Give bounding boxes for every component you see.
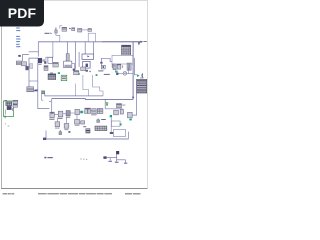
svg-text:PDF: PDF <box>8 5 37 21</box>
small valve above bar <box>59 130 62 134</box>
mini grid table M1 <box>117 104 122 108</box>
pipe bar corner up right <box>127 132 129 139</box>
wire left corner y=54.5 <box>23 55 29 62</box>
grid table G5 <box>95 126 107 130</box>
grey dots row <box>80 158 87 160</box>
block B1 top <box>78 28 82 32</box>
second table right of green box <box>13 104 18 107</box>
marks inside green box <box>12 108 14 111</box>
page border top <box>43 0 148 2</box>
tail vertical <box>116 154 118 161</box>
marks left of staircase <box>100 62 102 64</box>
feed stream label <box>45 33 50 34</box>
navy block inside green box <box>7 106 11 109</box>
teal mark on N1 <box>120 124 122 126</box>
cluster block c3b <box>81 121 85 124</box>
right row striped table RB <box>117 64 121 69</box>
valve V1 <box>55 27 57 35</box>
grey dots below green box <box>5 123 9 126</box>
tail foot marks <box>115 162 119 163</box>
wire L jog above tables <box>60 26 62 29</box>
page border right <box>146 0 149 189</box>
wire U2 drop 1 <box>83 75 89 96</box>
wire drop 3 <box>75 84 77 96</box>
wire from box to teal node <box>72 63 75 69</box>
cluster block c3 <box>75 120 80 124</box>
arrow blob left of bar <box>43 138 46 140</box>
cluster sub wires <box>57 115 77 124</box>
cluster wires <box>54 111 92 115</box>
label under S1 <box>98 70 103 71</box>
green bottom arrow <box>4 116 6 118</box>
wire B1 to B2 <box>82 29 88 31</box>
navy text bottom-left <box>44 157 52 159</box>
label above G4 <box>140 77 143 80</box>
label under b1 <box>49 119 54 120</box>
label right of M1 <box>122 104 125 107</box>
small valve icon bottom <box>97 119 100 123</box>
striped table left-edge <box>16 61 21 65</box>
wire long main line (right darker part) <box>102 41 142 43</box>
block M2 <box>128 112 133 117</box>
wire riser x=85.2 <box>84 42 86 54</box>
wire feed drop to main line <box>56 35 60 42</box>
dark node block left of pump <box>116 73 118 75</box>
label under L2 <box>38 63 41 66</box>
marks below staircase <box>44 61 46 64</box>
dark table lower <box>44 66 48 71</box>
label under b2 <box>58 118 63 119</box>
wire line A y=95.9 <box>45 94 103 96</box>
tiny marks above G2 <box>50 72 53 75</box>
label right of L2 <box>42 59 45 62</box>
wire vertical x=133.1 long <box>132 42 134 100</box>
blue stream text stack <box>16 28 20 48</box>
table TM <box>53 63 58 68</box>
block S1 <box>102 65 106 69</box>
table icon T2 left <box>27 87 34 92</box>
wire long vertical x=79.1 <box>78 52 80 67</box>
box U2 vessel <box>83 61 90 68</box>
footer text right <box>125 193 141 195</box>
page background <box>0 0 149 198</box>
dark dash D1 <box>34 90 37 91</box>
bottom-left wire drop <box>45 131 47 139</box>
down arrow branch on main line <box>138 42 140 45</box>
arrowhead end of main line <box>141 41 143 43</box>
wire drop x=105.2 <box>104 99 106 108</box>
feed arrowhead <box>51 33 53 35</box>
footer text middle <box>38 193 112 194</box>
end blob <box>110 132 113 134</box>
faint block at box edge <box>30 64 33 69</box>
block MB1 <box>114 110 119 115</box>
tail tick <box>109 158 111 161</box>
equals mark <box>122 66 123 68</box>
teal mark mid <box>110 115 112 117</box>
column block RC <box>127 63 131 70</box>
box with striped table inside <box>64 61 72 68</box>
hook wire from G4 to M2 <box>132 93 136 115</box>
label above dark table <box>83 126 86 127</box>
dash mark <box>69 28 70 29</box>
sub-flowsheet box edge <box>29 58 38 87</box>
tail wire horizontal <box>106 157 116 159</box>
mid table T4 <box>97 108 103 113</box>
unit block L2 pump (navy) <box>38 58 42 63</box>
white box N1 <box>111 121 120 126</box>
footer rule <box>1 187 148 190</box>
block B2 top <box>88 29 92 32</box>
teal mark <box>58 72 60 74</box>
tail branch vertical <box>125 160 127 163</box>
column block tall <box>66 54 69 61</box>
wire left jog y=51.8 <box>29 51 39 53</box>
wire jog y=81 <box>29 80 38 82</box>
label under c1 <box>55 127 59 130</box>
white frame box below G1 <box>112 55 133 64</box>
cluster block b3 <box>66 111 70 116</box>
stream label at right edge <box>143 40 146 43</box>
teal marks lower-left of pump <box>115 70 117 72</box>
label under b3 <box>66 117 70 118</box>
label under c3 <box>75 124 80 127</box>
U wire loop box <box>114 129 126 136</box>
table icon top-2 <box>72 28 75 31</box>
wire staircase right of U1 <box>101 58 112 65</box>
light long pipe bar <box>46 138 129 140</box>
title dash on box <box>4 99 7 102</box>
wire main mid horizontal <box>52 98 133 101</box>
cluster block c2 <box>64 124 69 129</box>
dark block left-edge LC <box>26 66 29 70</box>
block left-edge LB <box>22 62 27 66</box>
teal mark right of b4 <box>80 111 83 114</box>
dark square above tail <box>116 151 119 154</box>
tail branch horizontal <box>117 159 126 161</box>
cluster block c1 <box>55 122 60 127</box>
pdf badge <box>0 0 44 27</box>
label under c2 <box>64 128 68 131</box>
wire vertical x=37.8 lower <box>38 63 50 109</box>
grid table G1 <box>122 45 131 55</box>
cluster table pair b5 <box>85 108 91 113</box>
table icon top-1 <box>62 27 67 31</box>
arrow blob left <box>18 55 20 57</box>
dark table inside green box <box>6 102 12 106</box>
green glyph <box>106 102 108 105</box>
wire box outline under B2 <box>88 33 95 42</box>
white box vessel V2 <box>48 57 53 63</box>
wire riser to column <box>67 42 69 54</box>
cluster block b4 <box>75 109 80 114</box>
label right of valve <box>101 119 106 120</box>
wire to pump <box>118 73 133 75</box>
wire corner riser x=38 <box>37 42 39 57</box>
marks under U2 <box>86 70 88 72</box>
green tick bottom <box>96 74 98 76</box>
product arc icon <box>141 74 144 78</box>
teal arrow right row <box>137 74 140 77</box>
tables right of green box <box>13 100 18 103</box>
dark mark lower-left <box>77 73 79 75</box>
small table right of S1 <box>112 64 115 67</box>
mid table T3 <box>92 109 96 115</box>
cluster block b1 <box>50 112 54 117</box>
node mark <box>73 69 76 71</box>
wire long riser x=75.5 <box>75 42 77 69</box>
footer text left <box>3 193 15 195</box>
faint label below <box>49 100 51 103</box>
page border left <box>0 0 3 189</box>
green-bordered table G3 <box>61 75 67 81</box>
wire vertical x=111.2 with end blob <box>110 118 112 133</box>
green node block D2 <box>42 91 45 94</box>
wire drop x=51.7 <box>51 98 53 112</box>
stream table G2 <box>48 74 56 80</box>
grid table G4 <box>137 79 147 93</box>
small table above drop1 <box>74 71 79 75</box>
arrowhead down at x=133 corner <box>132 97 134 100</box>
label right of T2 <box>35 89 38 90</box>
green recycle box <box>3 101 13 116</box>
box U1 flash drum <box>82 54 94 59</box>
wire riser pump to column RC <box>127 68 129 74</box>
grey block behind U2 <box>81 67 86 71</box>
block MB2 <box>120 109 123 114</box>
wire drop left of D2 <box>42 90 44 100</box>
tail branch foot <box>124 163 127 164</box>
teal mark under M2 <box>129 119 131 121</box>
green dot <box>89 71 90 72</box>
wire vertical x=134.4 short parallel <box>134 58 137 75</box>
tiny label right <box>68 131 70 133</box>
bottom tail arrow blob <box>103 156 106 159</box>
dark mini table bottom <box>86 129 90 133</box>
wire U2 drop 2 <box>93 75 103 96</box>
wire mid-right horizontal <box>105 108 122 110</box>
cluster block b2 <box>58 111 63 117</box>
pump P2 circle <box>123 72 127 76</box>
wire riser x=93.6 <box>93 42 95 54</box>
right row striped table RA <box>113 64 116 70</box>
wire long main line (left lighter part) <box>38 41 102 43</box>
wire staircase from main line <box>46 42 53 61</box>
